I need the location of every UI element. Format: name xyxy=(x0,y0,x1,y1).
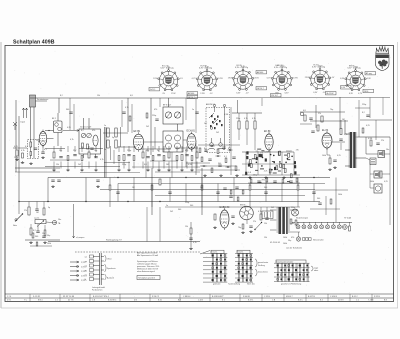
svg-text:EF 89: EF 89 xyxy=(264,130,271,133)
svg-text:100k: 100k xyxy=(338,194,342,196)
svg-text:220p: 220p xyxy=(362,104,366,106)
svg-text:4,7k: 4,7k xyxy=(125,107,129,109)
svg-text:Netz: Netz xyxy=(13,224,17,227)
tube EC92 xyxy=(39,132,47,146)
svg-text:1M: 1M xyxy=(36,212,39,214)
svg-text:BF II 10,7: BF II 10,7 xyxy=(163,105,171,107)
svg-text:B 41 B 1477 870 4: B 41 B 1477 870 4 xyxy=(93,296,109,298)
svg-text:8,2: 8,2 xyxy=(228,148,231,150)
svg-text:15k: 15k xyxy=(97,95,100,97)
svg-text:C 414 B: C 414 B xyxy=(330,296,338,298)
svg-text:0,25: 0,25 xyxy=(366,125,370,127)
svg-text:Zwischenst.: Zwischenst. xyxy=(258,271,268,274)
svg-text:220p: 220p xyxy=(14,157,18,159)
page scan edge left xyxy=(0,42,2,308)
svg-text:R1 R7 C4 88: R1 R7 C4 88 xyxy=(63,296,74,298)
components under switch bank xyxy=(199,148,201,153)
svg-text:100k: 100k xyxy=(322,155,326,157)
tube EF89 II xyxy=(265,134,273,150)
svg-text:1M: 1M xyxy=(342,119,345,121)
svg-text:41 7 8: 41 7 8 xyxy=(68,300,73,302)
svg-text:B 4 C: B 4 C xyxy=(298,300,303,302)
svg-text:170V: 170V xyxy=(293,77,298,79)
svg-text:5p: 5p xyxy=(157,150,159,152)
svg-text:10n: 10n xyxy=(59,150,62,152)
svg-text:C 8: C 8 xyxy=(92,300,95,302)
svg-text:470: 470 xyxy=(92,130,95,132)
switch table 3 xyxy=(276,260,306,263)
svg-text:6,3V~ 0,3A 12g: 6,3V~ 0,3A 12g xyxy=(348,67,361,70)
stack right of EL84 xyxy=(340,129,342,135)
svg-text:R 16 C2: R 16 C2 xyxy=(152,296,159,298)
svg-text:EF 89: EF 89 xyxy=(134,130,141,133)
svg-text:Alle Spannwerte ±20 mA: Alle Spannwerte ±20 mA xyxy=(137,254,159,257)
svg-text:220p: 220p xyxy=(236,118,240,120)
svg-text:300: 300 xyxy=(218,163,221,165)
scan speckles xyxy=(243,246,246,249)
svg-text:1M: 1M xyxy=(204,123,207,125)
Graetz logo shield with clover xyxy=(376,55,390,71)
svg-text:Netzschalter: Netzschalter xyxy=(313,239,324,242)
right column wires xyxy=(358,100,360,137)
svg-text:2x25,1: 2x25,1 xyxy=(150,89,156,91)
svg-text:300: 300 xyxy=(35,236,38,238)
right feedback wires xyxy=(315,189,348,191)
svg-text:4,7k: 4,7k xyxy=(21,150,25,152)
svg-text:Lautst.: Lautst. xyxy=(34,217,40,220)
lower tone parts xyxy=(30,228,32,235)
tube ECH81 xyxy=(187,134,196,150)
svg-text:EM 85: EM 85 xyxy=(240,205,245,207)
AM FM switch bank xyxy=(206,104,230,152)
IF can 2 xyxy=(163,107,183,124)
svg-text:B 7: B 7 xyxy=(178,300,181,302)
FM box dashed xyxy=(28,140,39,159)
small motor symbol xyxy=(292,209,299,216)
svg-text:410 B 7: 410 B 7 xyxy=(286,296,293,298)
svg-text:8 1: 8 1 xyxy=(222,300,225,302)
svg-text:300: 300 xyxy=(178,209,181,211)
svg-text:1 2 4: 1 2 4 xyxy=(7,296,11,298)
svg-text:gezeichnete: gezeichnete xyxy=(258,261,268,264)
svg-text:0,5M: 0,5M xyxy=(368,138,373,140)
svg-text:4,7k: 4,7k xyxy=(100,159,104,161)
svg-text:AM 460: AM 460 xyxy=(257,71,264,74)
svg-text:170V: 170V xyxy=(228,77,233,79)
svg-text:4,7k: 4,7k xyxy=(70,139,74,141)
tube socket ECH 81 xyxy=(192,67,224,95)
parts hanging from bus xyxy=(28,207,30,215)
svg-text:70p: 70p xyxy=(330,109,333,111)
left wires xyxy=(15,100,17,172)
svg-text:230V~: 230V~ xyxy=(364,91,370,93)
svg-text:z.Lampen: z.Lampen xyxy=(76,237,84,239)
svg-text:0,25: 0,25 xyxy=(384,181,388,183)
svg-text:FM 10,7: FM 10,7 xyxy=(271,95,278,97)
svg-text:1n: 1n xyxy=(104,125,106,127)
svg-text:8,2: 8,2 xyxy=(362,112,365,114)
svg-text:470: 470 xyxy=(154,109,157,111)
svg-text:70p: 70p xyxy=(94,150,97,152)
ferrite antenna xyxy=(30,95,36,107)
svg-text:Ferritantenne: Ferritantenne xyxy=(37,98,48,101)
AM bandfilter xyxy=(79,129,101,154)
svg-text:4,7k: 4,7k xyxy=(264,171,268,173)
svg-text:BF 1: BF 1 xyxy=(52,118,56,120)
svg-text:B 41 C: B 41 C xyxy=(352,296,358,298)
upper fill wires xyxy=(69,98,71,130)
svg-text:0,5M: 0,5M xyxy=(224,114,229,116)
svg-text:Skalenlampen: Skalenlampen xyxy=(296,218,308,220)
component stack xyxy=(190,222,192,247)
tube socket EL 84 xyxy=(305,66,335,94)
bus segments xyxy=(45,148,65,150)
svg-text:Ausland: Ausland xyxy=(107,277,114,280)
component rows clustered xyxy=(53,152,55,158)
svg-text:220p: 220p xyxy=(291,207,295,209)
svg-text:B 41 88 C: B 41 88 C xyxy=(108,300,117,302)
svg-text:R 52 B: R 52 B xyxy=(374,296,381,298)
svg-text:5p: 5p xyxy=(112,137,114,139)
tube socket EF 89 xyxy=(228,66,260,94)
svg-text:1 4: 1 4 xyxy=(55,300,58,302)
IF can 1 xyxy=(54,121,63,133)
svg-text:von der Schaltseite: von der Schaltseite xyxy=(286,247,302,250)
tube EF89 xyxy=(134,134,144,150)
extra verticals in band xyxy=(120,127,122,147)
magic eye EM85 xyxy=(240,206,254,220)
double vertical xyxy=(104,127,106,178)
svg-text:8 4: 8 4 xyxy=(320,300,323,302)
svg-text:Schaltplan geändert: Schaltplan geändert xyxy=(138,277,155,280)
tube socket EABC 80 xyxy=(267,66,299,94)
svg-text:6,8: 6,8 xyxy=(130,95,133,97)
svg-text:8,2: 8,2 xyxy=(81,130,84,132)
ratio detector dense cluster xyxy=(261,154,263,157)
svg-text:10n: 10n xyxy=(386,149,389,151)
svg-text:Ub 250V: Ub 250V xyxy=(326,93,334,95)
top bus xyxy=(30,97,195,99)
switch near EM85 xyxy=(255,223,262,230)
svg-text:15k: 15k xyxy=(42,233,45,235)
svg-text:Nicht bet.: Nicht bet. xyxy=(247,283,255,286)
svg-text:170V: 170V xyxy=(153,78,158,80)
svg-text:gesehen in Pfeilrichtung: gesehen in Pfeilrichtung xyxy=(281,283,301,286)
svg-text:6,8: 6,8 xyxy=(303,110,306,112)
svg-text:170V: 170V xyxy=(171,93,176,95)
mid coils xyxy=(107,128,109,137)
svg-text:15k: 15k xyxy=(185,226,188,228)
svg-text:0,25: 0,25 xyxy=(14,146,18,148)
svg-text:220p: 220p xyxy=(127,150,131,152)
svg-text:15k: 15k xyxy=(36,140,39,142)
svg-text:300: 300 xyxy=(264,187,267,189)
svg-text:41 B 8: 41 B 8 xyxy=(338,300,343,302)
svg-text:220p: 220p xyxy=(122,164,126,166)
selenium + misc xyxy=(260,214,262,220)
svg-text:C 88 B 4: C 88 B 4 xyxy=(183,296,190,298)
svg-text:6,8: 6,8 xyxy=(144,164,147,166)
svg-text:6,3V~ 0,3A 12g: 6,3V~ 0,3A 12g xyxy=(235,66,248,69)
svg-text:300: 300 xyxy=(190,205,193,207)
svg-text:ohne Antennensignal.: ohne Antennensignal. xyxy=(137,270,156,273)
svg-text:Farbzeichen: Farbzeichen xyxy=(92,289,102,292)
svg-text:15k: 15k xyxy=(264,223,267,225)
svg-text:2k2: 2k2 xyxy=(146,126,149,128)
power transformer xyxy=(279,207,282,234)
svg-text:7 4 88: 7 4 88 xyxy=(368,300,373,302)
svg-text:4 8 1: 4 8 1 xyxy=(7,300,11,302)
svg-text:4,7k: 4,7k xyxy=(193,242,197,244)
tube EABC80 xyxy=(220,210,229,228)
svg-text:6,3V~ 0,3A 12g: 6,3V~ 0,3A 12g xyxy=(161,67,174,70)
three resistors row xyxy=(238,121,240,129)
svg-text:42 43 44 45: 42 43 44 45 xyxy=(270,242,280,244)
svg-text:3 4 5 R2: 3 4 5 R2 xyxy=(33,296,40,298)
svg-text:8 47 1: 8 47 1 xyxy=(248,300,253,302)
svg-text:ECH 81: ECH 81 xyxy=(187,130,196,133)
svg-text:8,2: 8,2 xyxy=(33,230,36,232)
svg-text:1n: 1n xyxy=(166,205,168,207)
svg-text:1M: 1M xyxy=(132,187,135,189)
lower lines xyxy=(48,241,200,243)
svg-text:6,3V~ 0,3A 12g: 6,3V~ 0,3A 12g xyxy=(312,66,325,69)
svg-text:B 417 B: B 417 B xyxy=(308,296,315,298)
svg-text:EL 84: EL 84 xyxy=(322,129,329,132)
svg-text:0,5M: 0,5M xyxy=(188,164,193,166)
svg-text:6,8: 6,8 xyxy=(248,172,251,174)
svg-text:0,1: 0,1 xyxy=(44,149,47,151)
svg-text:4,7k: 4,7k xyxy=(252,118,256,120)
svg-text:170V: 170V xyxy=(200,93,205,95)
braces xyxy=(255,259,257,267)
dipole xyxy=(13,122,17,130)
border frame xyxy=(5,46,394,302)
svg-text:300: 300 xyxy=(317,198,320,200)
pilot lamp group xyxy=(296,237,300,241)
svg-text:Rückkopplung 217: Rückkopplung 217 xyxy=(106,240,122,242)
svg-text:0,25: 0,25 xyxy=(337,155,341,157)
svg-text:FM 10,7: FM 10,7 xyxy=(257,88,264,90)
svg-text:Schaltplan 409B: Schaltplan 409B xyxy=(13,40,55,46)
svg-text:0,1: 0,1 xyxy=(224,156,227,158)
central wire mesh xyxy=(48,177,330,179)
svg-text:6,3V~ 0,3A 12g: 6,3V~ 0,3A 12g xyxy=(199,67,212,70)
footer band xyxy=(5,293,394,295)
svg-text:0,1: 0,1 xyxy=(25,146,28,148)
svg-text:27k: 27k xyxy=(253,221,256,223)
svg-text:15k: 15k xyxy=(56,164,59,166)
heater chain bus xyxy=(296,221,352,223)
svg-text:27k: 27k xyxy=(296,150,299,152)
svg-text:8,2: 8,2 xyxy=(204,148,207,150)
switch table 2 xyxy=(237,250,250,253)
svg-text:2k2: 2k2 xyxy=(271,207,274,209)
IF can 3 xyxy=(163,131,183,152)
right lower speaker boxes xyxy=(374,171,382,178)
svg-text:ws: ws xyxy=(85,274,87,276)
svg-text:Ohne: Ohne xyxy=(107,259,112,261)
cluster above EABC80 xyxy=(223,187,226,189)
line to lamps xyxy=(73,204,75,234)
svg-text:10n: 10n xyxy=(58,219,61,221)
svg-text:2k2: 2k2 xyxy=(78,164,81,166)
svg-text:4,7k: 4,7k xyxy=(244,118,248,120)
svg-text:1n: 1n xyxy=(192,109,194,111)
svg-text:27k: 27k xyxy=(24,210,27,212)
svg-text:B 418 B 4877: B 418 B 4877 xyxy=(212,296,223,298)
svg-text:4,7k: 4,7k xyxy=(344,134,348,136)
svg-text:gedrückt: gedrückt xyxy=(213,283,221,286)
svg-text:Tastenstellung: Tastenstellung xyxy=(228,283,240,286)
svg-text:10n: 10n xyxy=(146,150,149,152)
svg-text:8 41: 8 41 xyxy=(158,300,162,302)
coupling xyxy=(317,125,319,131)
tube socket EM 85 xyxy=(340,67,371,95)
tube EL84 xyxy=(322,133,332,148)
svg-text:AM 460: AM 460 xyxy=(188,92,195,95)
svg-text:AZ spg: AZ spg xyxy=(366,72,372,75)
svg-text:170V: 170V xyxy=(218,78,223,80)
svg-text:B 8: B 8 xyxy=(384,300,387,302)
speaker xyxy=(378,151,385,158)
svg-text:470: 470 xyxy=(185,150,188,152)
switch table 1 xyxy=(211,250,224,253)
volume pot horizontal xyxy=(35,220,46,224)
tube socket ECC 85 xyxy=(153,67,183,95)
svg-text:oben: oben xyxy=(314,270,318,272)
antenna arrows xyxy=(22,108,24,118)
svg-text:5p: 5p xyxy=(48,207,50,209)
page scan edge bottom xyxy=(1,307,398,309)
legend symbol column xyxy=(70,261,79,263)
cable bundle legend xyxy=(99,253,101,285)
svg-text:27k: 27k xyxy=(318,113,321,115)
svg-text:1M: 1M xyxy=(200,187,203,189)
svg-text:Vorkreis 6-19: Vorkreis 6-19 xyxy=(80,126,91,129)
Graetz logo crown xyxy=(376,47,389,54)
svg-text:300: 300 xyxy=(66,109,69,111)
svg-text:215V: 215V xyxy=(254,77,259,79)
mains switch left xyxy=(18,202,20,215)
svg-text:ge: ge xyxy=(85,270,87,272)
svg-text:8 B 4: 8 B 4 xyxy=(38,300,42,302)
svg-text:220p: 220p xyxy=(152,115,156,117)
NF connector xyxy=(53,221,57,225)
svg-text:2k2: 2k2 xyxy=(216,132,219,134)
svg-text:Stellung: Stellung xyxy=(258,264,265,267)
svg-text:470: 470 xyxy=(291,237,294,239)
svg-text:100k: 100k xyxy=(283,237,287,239)
svg-text:220p: 220p xyxy=(185,202,189,204)
svg-text:2k2: 2k2 xyxy=(170,211,173,213)
svg-text:Dipol: Dipol xyxy=(21,122,26,124)
svg-text:15k: 15k xyxy=(260,152,263,154)
svg-text:C 4 B: C 4 B xyxy=(198,300,203,302)
svg-text:215V: 215V xyxy=(305,77,310,79)
svg-text:27k: 27k xyxy=(381,140,384,142)
svg-text:1M: 1M xyxy=(166,164,169,166)
svg-text:AM FM U1: AM FM U1 xyxy=(206,103,215,106)
svg-text:Sperrkreis: Sperrkreis xyxy=(107,267,116,270)
svg-text:15k: 15k xyxy=(264,237,267,239)
svg-text:1n: 1n xyxy=(290,151,292,153)
output transformer xyxy=(350,132,352,168)
svg-text:70p: 70p xyxy=(238,227,241,229)
svg-text:C 1: C 1 xyxy=(356,300,359,302)
page scan edge right xyxy=(397,42,399,308)
top right parts xyxy=(300,111,345,113)
svg-text:100k: 100k xyxy=(370,181,374,183)
svg-text:EABC 80: EABC 80 xyxy=(220,206,231,209)
svg-text:8,2: 8,2 xyxy=(60,95,63,97)
svg-text:7V 0,3A: 7V 0,3A xyxy=(344,217,351,220)
svg-text:6,3V~ 0,3A 12g: 6,3V~ 0,3A 12g xyxy=(274,66,287,69)
svg-text:R 44 88: R 44 88 xyxy=(243,296,250,298)
svg-text:C 52 B: C 52 B xyxy=(264,296,271,298)
svg-text:100k: 100k xyxy=(283,243,287,245)
svg-text:100k: 100k xyxy=(47,243,51,245)
